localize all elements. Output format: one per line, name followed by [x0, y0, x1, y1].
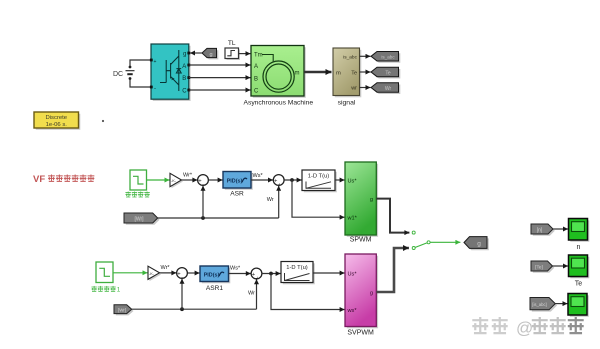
svg-text:Te: Te — [351, 70, 357, 76]
svg-text:[is_abc]: [is_abc] — [532, 302, 546, 307]
svg-text:@: @ — [516, 319, 533, 338]
svg-text:wr: wr — [350, 86, 357, 92]
svg-text:Discrete: Discrete — [45, 115, 67, 121]
svg-text:A: A — [254, 64, 258, 70]
svg-text:SVPWM: SVPWM — [347, 330, 374, 337]
svg-text:TL: TL — [228, 40, 236, 47]
svg-text:[Te]: [Te] — [535, 264, 543, 270]
svg-text:Ws*: Ws* — [230, 266, 241, 272]
svg-text:1-D T(u): 1-D T(u) — [286, 265, 308, 271]
svg-text:g: g — [183, 52, 186, 58]
svg-text:Te: Te — [385, 71, 391, 77]
svg-text:DC: DC — [113, 71, 123, 78]
svg-text:ASR1: ASR1 — [206, 285, 224, 292]
svg-text:B: B — [254, 76, 258, 82]
svg-text:ws*: ws* — [347, 308, 358, 314]
svg-text:n: n — [577, 244, 581, 251]
svg-text:Wr*: Wr* — [161, 265, 171, 271]
svg-text:g: g — [477, 241, 481, 248]
svg-text:m: m — [336, 70, 341, 76]
svg-text:-: - — [154, 86, 156, 92]
svg-text:PID(s): PID(s) — [204, 273, 220, 279]
svg-text:1-D T(u): 1-D T(u) — [308, 173, 330, 179]
svg-text:Asynchronous Machine: Asynchronous Machine — [244, 100, 314, 107]
svg-text:SPWM: SPWM — [350, 237, 372, 244]
svg-text:+: + — [154, 59, 157, 65]
svg-text:signal: signal — [338, 99, 356, 106]
svg-text:is_abc: is_abc — [343, 55, 357, 61]
svg-text:B: B — [182, 76, 186, 82]
svg-text:Us*: Us* — [348, 178, 358, 184]
svg-text:g: g — [370, 290, 373, 296]
svg-text:Te: Te — [575, 280, 583, 287]
svg-text:C: C — [182, 89, 187, 95]
svg-text:Wr*: Wr* — [183, 172, 193, 178]
svg-text:Wr: Wr — [248, 290, 255, 296]
svg-text:[n]: [n] — [537, 227, 543, 233]
svg-text:[Wr]: [Wr] — [134, 216, 144, 222]
svg-text:PID(s): PID(s) — [227, 179, 243, 185]
svg-text:Us*: Us* — [348, 272, 358, 278]
svg-text:Tm: Tm — [254, 53, 263, 59]
svg-text:VF: VF — [33, 174, 45, 185]
svg-text:-K-: -K- — [171, 179, 177, 183]
svg-text:-K-: -K- — [149, 272, 155, 276]
svg-text:A: A — [182, 64, 186, 70]
svg-text:g: g — [370, 197, 373, 203]
svg-text:Wr: Wr — [267, 197, 274, 203]
svg-text:1: 1 — [117, 287, 121, 294]
svg-text:g: g — [209, 52, 212, 58]
svg-text:C: C — [254, 89, 259, 95]
svg-text:w1*: w1* — [347, 215, 358, 221]
svg-text:Ws*: Ws* — [253, 173, 264, 179]
svg-text:1e-06 s.: 1e-06 s. — [46, 122, 68, 128]
svg-text:m: m — [295, 71, 300, 77]
svg-text:ASR: ASR — [230, 191, 244, 198]
svg-text:Wr: Wr — [385, 86, 392, 92]
svg-text:[Wr]: [Wr] — [118, 307, 126, 312]
svg-text:is_abc: is_abc — [381, 55, 395, 60]
